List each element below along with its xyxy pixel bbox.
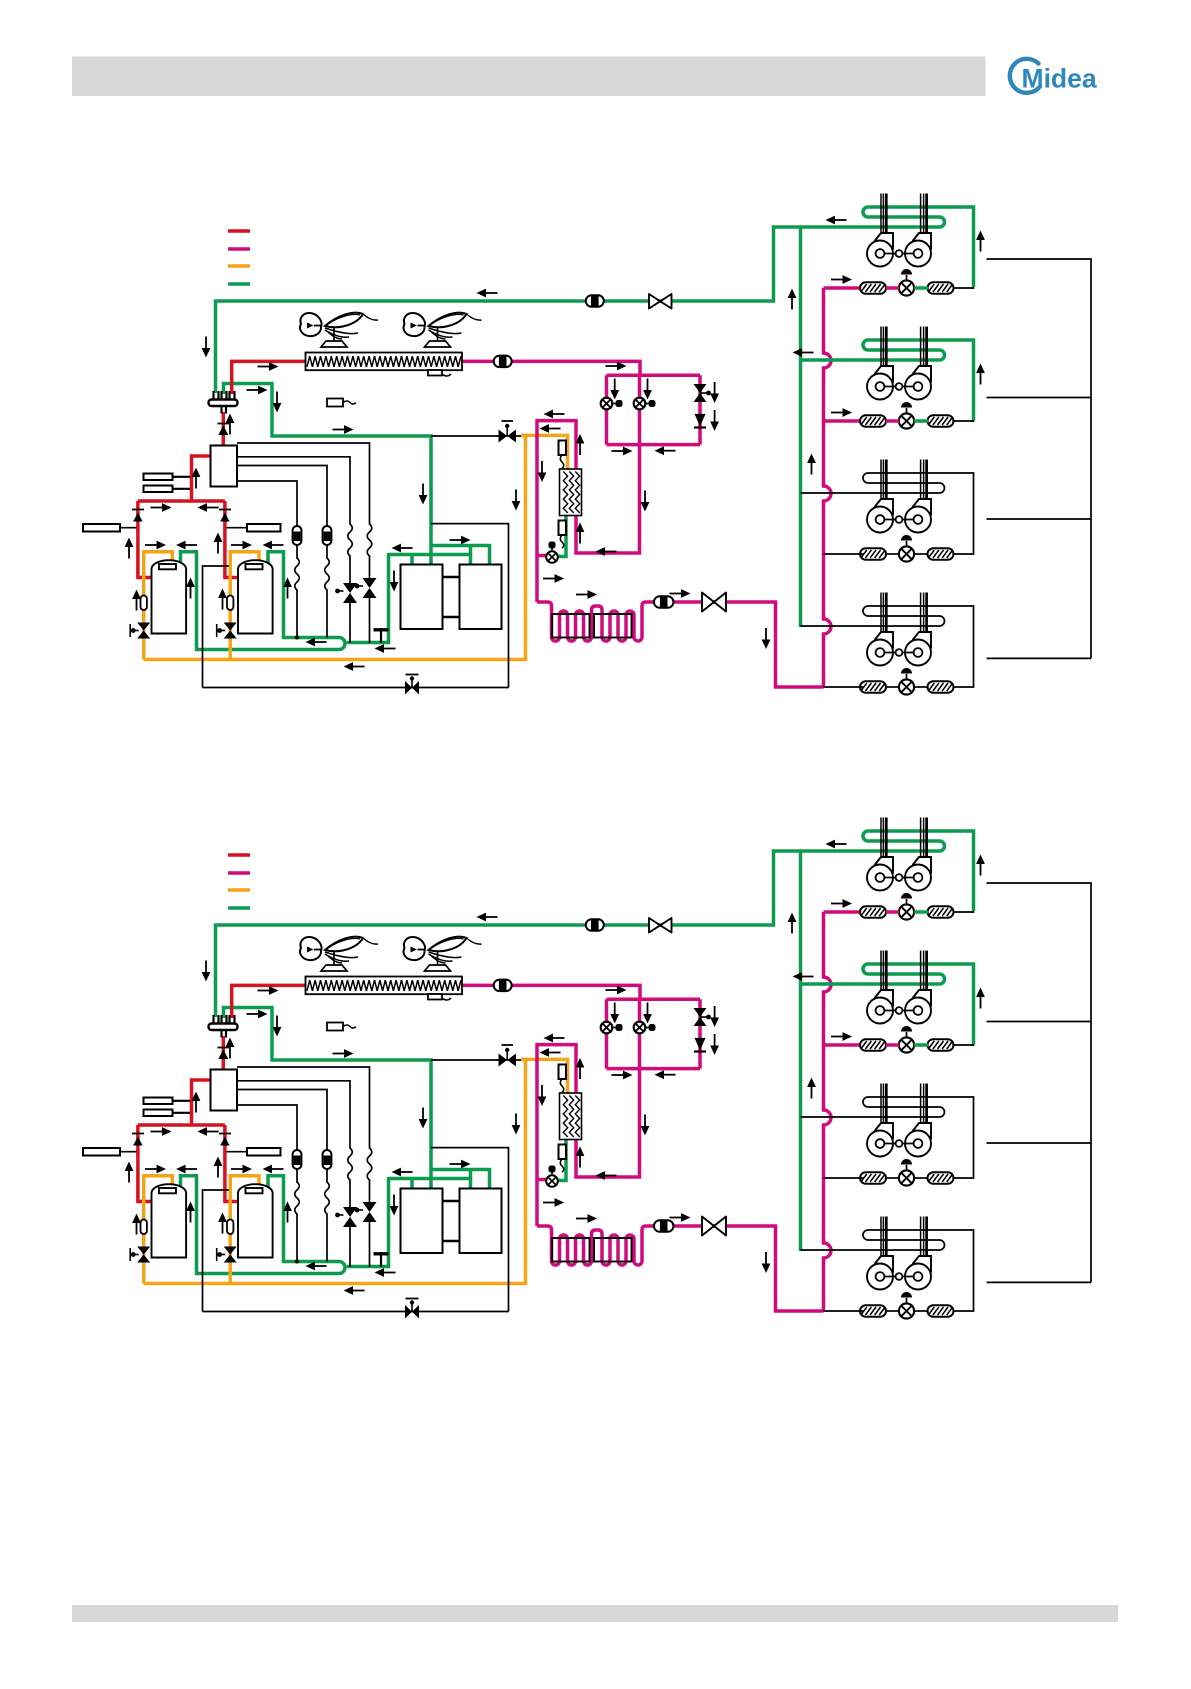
footer bar (72, 1605, 1118, 1622)
svg-text:Midea: Midea (1022, 64, 1097, 94)
Midea logo (1010, 59, 1097, 94)
piping diagram: cooling operation (83, 194, 1091, 695)
header bar (72, 57, 986, 97)
piping diagram: heating operation (duplicate layout) (83, 818, 1091, 1319)
